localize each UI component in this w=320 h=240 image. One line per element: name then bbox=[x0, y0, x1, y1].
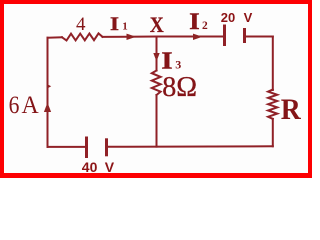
svg-text:3: 3 bbox=[175, 58, 181, 72]
svg-text:40: 40 bbox=[82, 159, 98, 175]
resistor 4 (zigzag) bbox=[62, 33, 103, 40]
resistor R (zigzag) bbox=[268, 90, 277, 119]
arrow I3 (downward on middle branch) bbox=[153, 53, 159, 62]
battery 40V right plate bbox=[105, 140, 108, 155]
svg-text:I: I bbox=[189, 9, 200, 34]
arrow I1 (current direction on top wire) bbox=[127, 34, 137, 40]
svg-text:V: V bbox=[244, 10, 253, 25]
wire left vertical bbox=[47, 38, 49, 147]
svg-text:I: I bbox=[110, 14, 119, 35]
svg-text:V: V bbox=[105, 159, 115, 175]
svg-text:2: 2 bbox=[202, 20, 208, 32]
svg-text:6: 6 bbox=[9, 92, 20, 119]
svg-text:20: 20 bbox=[221, 10, 235, 25]
svg-text:R: R bbox=[281, 93, 301, 126]
resistor 8 ohm (zigzag) bbox=[152, 71, 161, 96]
svg-text:I: I bbox=[161, 48, 172, 74]
wire top middle (resistor to battery 20V) bbox=[103, 36, 225, 38]
wire middle vertical upper bbox=[156, 37, 158, 71]
wire bottom right segment bbox=[107, 145, 273, 148]
battery 20V right plate bbox=[243, 30, 246, 42]
svg-text:1: 1 bbox=[122, 21, 128, 33]
wire right vertical upper bbox=[272, 37, 274, 91]
battery 40V left plate bbox=[85, 138, 88, 157]
wire top-left segment bbox=[48, 36, 63, 38]
wire top-right segment bbox=[245, 36, 273, 38]
wire middle vertical lower bbox=[156, 95, 158, 147]
smudge on left wire bbox=[47, 84, 51, 89]
svg-text:4: 4 bbox=[76, 14, 86, 35]
wire right vertical lower bbox=[272, 119, 274, 146]
arrow 6A (upward on left wire) bbox=[44, 103, 51, 113]
svg-text:A: A bbox=[22, 92, 39, 119]
svg-text:8Ω: 8Ω bbox=[162, 72, 197, 103]
wire bottom-left segment bbox=[48, 146, 87, 148]
battery 20V left plate bbox=[223, 26, 226, 45]
svg-text:X: X bbox=[150, 12, 164, 37]
arrow I2 (current direction on top wire) bbox=[193, 34, 203, 40]
